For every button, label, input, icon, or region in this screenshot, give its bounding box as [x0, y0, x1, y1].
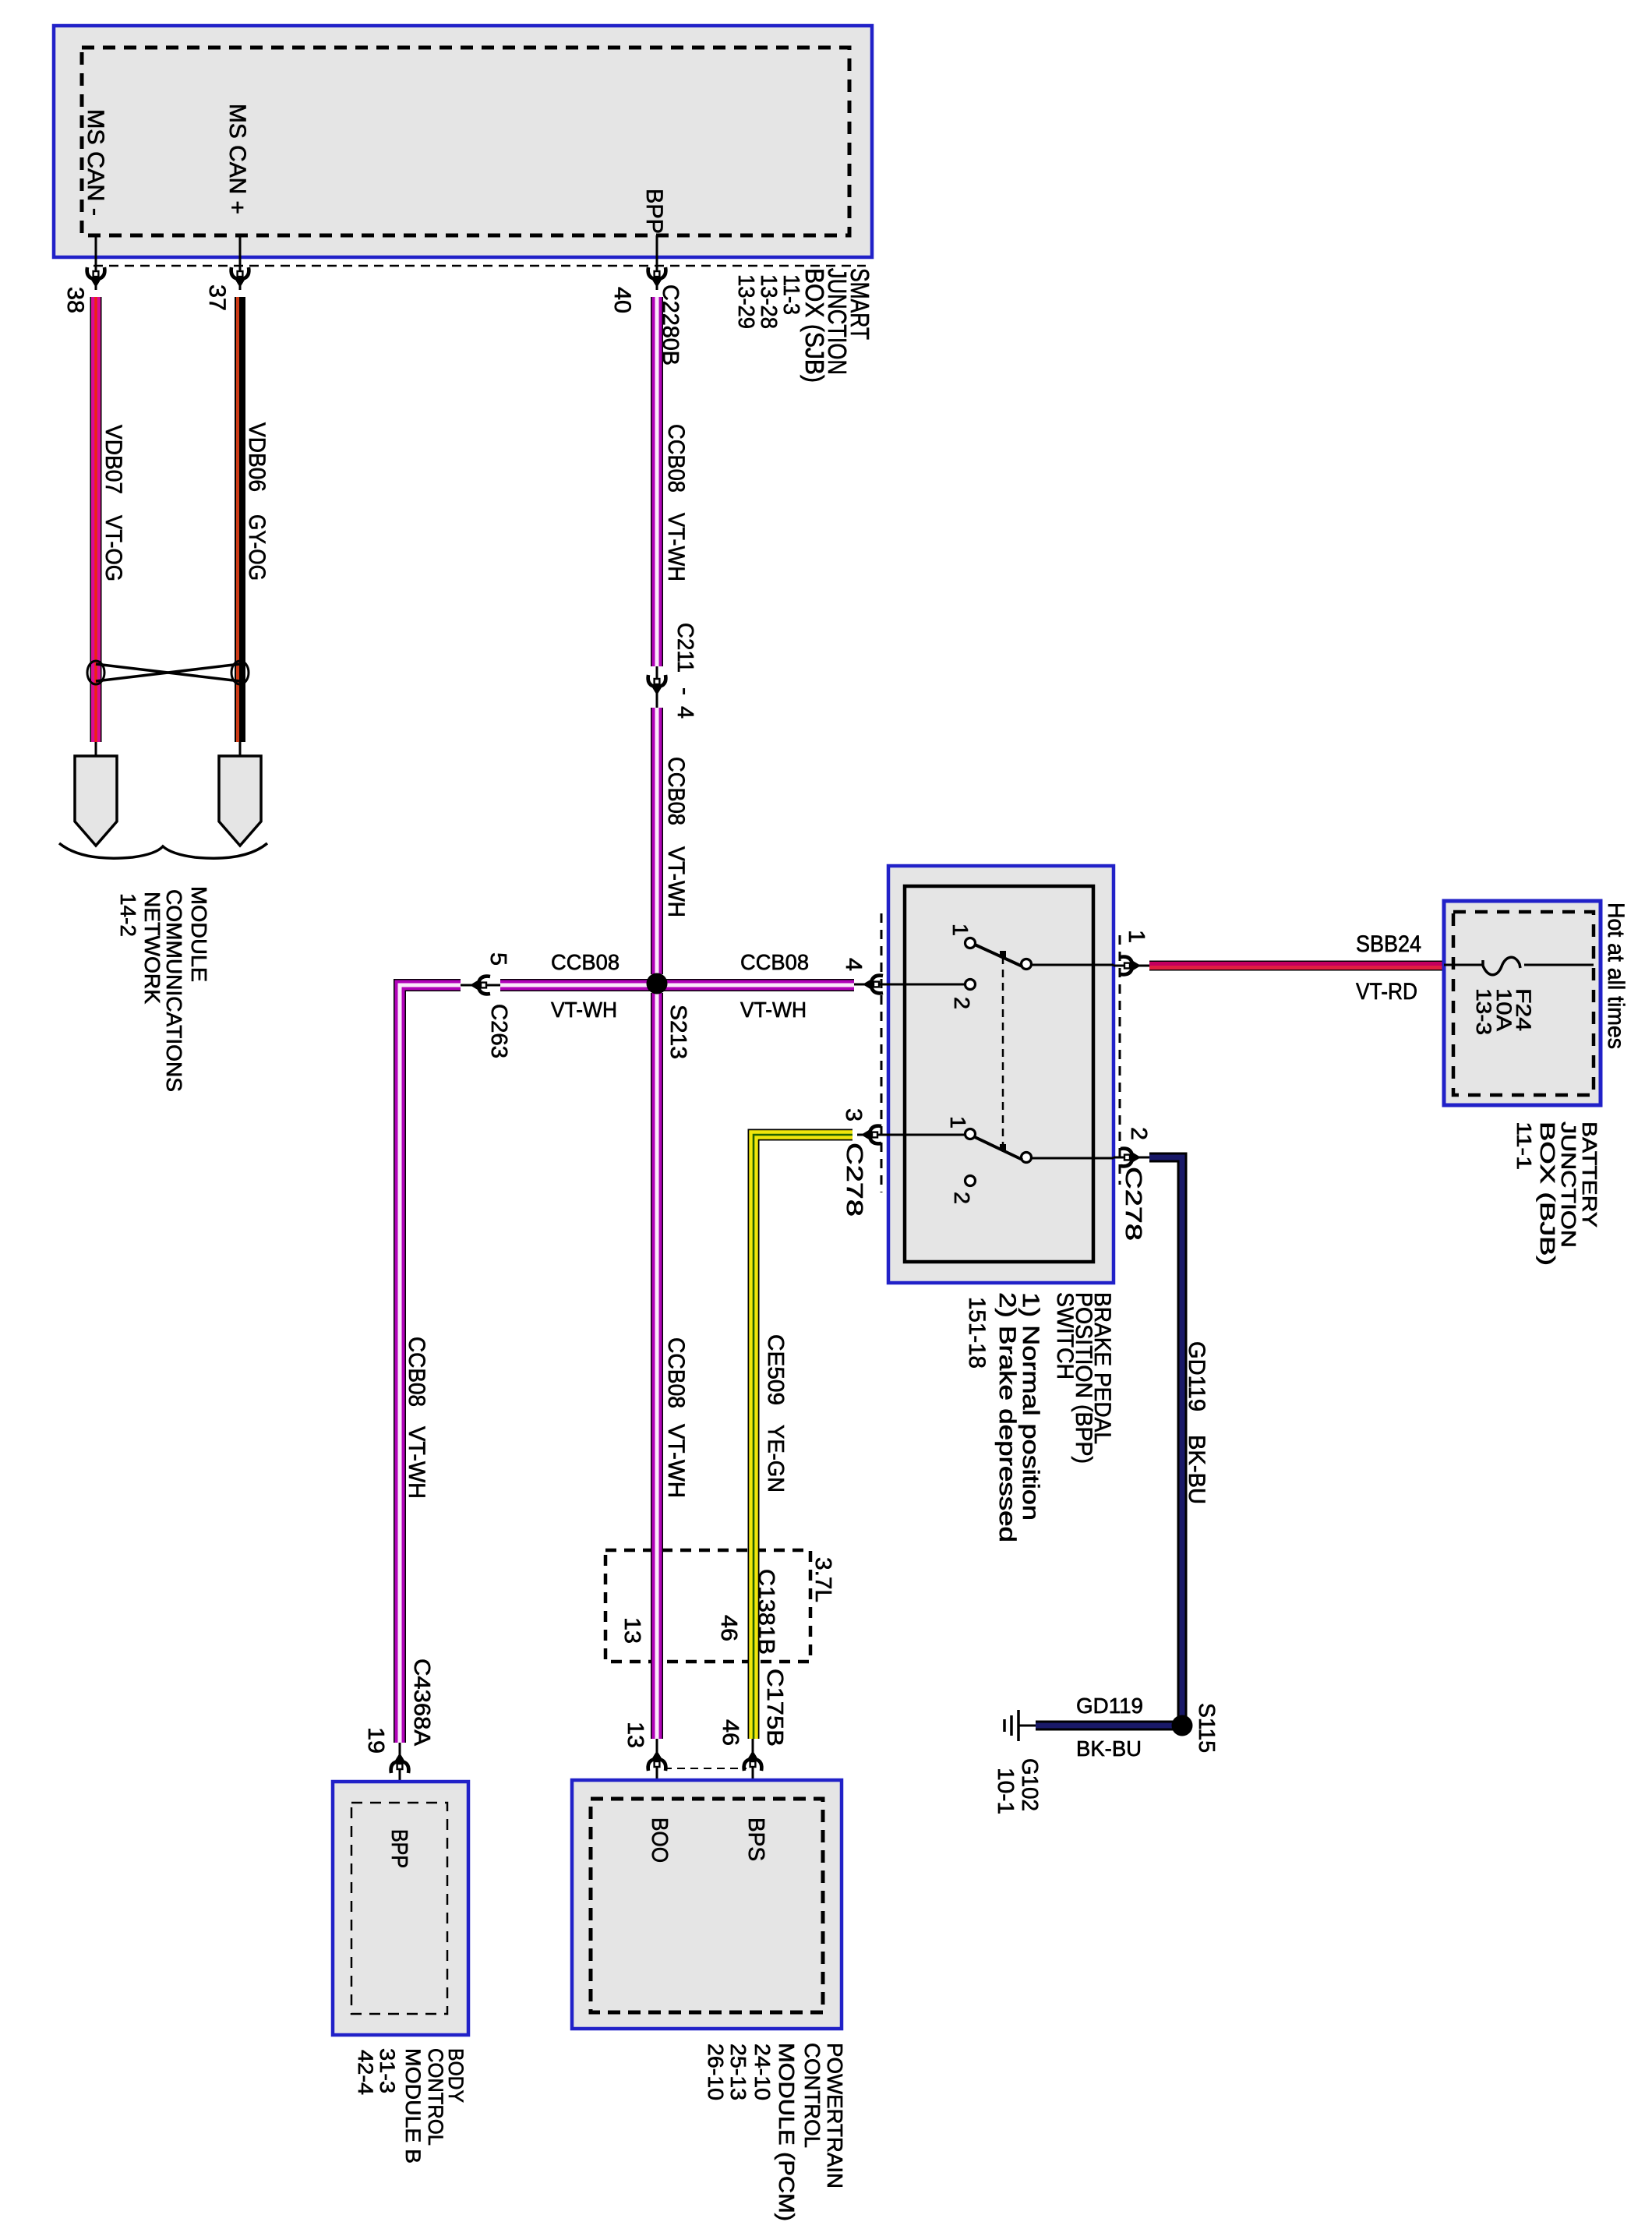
svg-text:BATTERY: BATTERY — [1578, 1122, 1601, 1228]
BCM label — [354, 2048, 468, 2164]
wire label CCB08 VT-WH to BCM — [404, 1337, 429, 1499]
svg-text:G102: G102 — [1017, 1758, 1042, 1811]
svg-text:CCB08: CCB08 — [404, 1337, 429, 1407]
svg-text:CCB08: CCB08 — [663, 424, 689, 493]
switch A contact 1 label — [948, 924, 972, 936]
svg-text:151-18: 151-18 — [964, 1297, 990, 1369]
connector arrow C211 pin 4 — [648, 675, 666, 695]
svg-text:CONTROL: CONTROL — [800, 2043, 824, 2148]
svg-text:10-1: 10-1 — [993, 1768, 1018, 1814]
pin label BPP — [641, 189, 667, 234]
svg-text:VDB07: VDB07 — [101, 425, 126, 494]
svg-text:13-29: 13-29 — [733, 274, 758, 329]
svg-text:46: 46 — [718, 1719, 743, 1746]
svg-text:VT-RD: VT-RD — [1356, 979, 1417, 1005]
wire CCB08 VT-WH from SJB to PCM — [651, 297, 663, 1739]
twisted pair crossing — [87, 661, 249, 684]
wire SBB24 VT-RD — [1149, 961, 1444, 971]
pin 4 lead — [854, 984, 888, 986]
wire label CCB08 VT-WH right of S213 — [740, 950, 809, 1022]
svg-text:25-13: 25-13 — [726, 2044, 750, 2100]
connector arrow C263 pin 5 — [470, 977, 490, 994]
connector name C278 right — [1121, 1167, 1145, 1241]
switch A common lead to pin 1 — [1032, 964, 1114, 966]
battery junction box (BJB) — [1444, 901, 1601, 1105]
switch A pivot — [1022, 959, 1032, 970]
PCM pin label BPS — [743, 1817, 768, 1861]
pin 2 lead — [1114, 1157, 1149, 1159]
network brace — [59, 843, 267, 858]
label MODULE COMMUNICATIONS NETWORK 14-2 — [116, 886, 211, 1092]
connector C211 lead — [656, 666, 658, 708]
connector name C263 — [486, 1004, 511, 1058]
svg-text:1) Normal position: 1) Normal position — [1018, 1292, 1043, 1521]
wire label GD119 BK-BU horizontal — [1076, 1694, 1143, 1761]
wire label VDB07 VT-OG — [101, 425, 126, 581]
switch A blade — [975, 945, 1022, 966]
svg-text:19: 19 — [363, 1727, 388, 1754]
fuse F24 line — [1444, 964, 1594, 966]
pin 46 lead into PCM — [752, 1739, 754, 1797]
PCM pin label BOO — [647, 1817, 672, 1863]
label 3.7L — [810, 1557, 835, 1602]
svg-text:CE509: CE509 — [763, 1334, 788, 1405]
wire CE509 YE-GN — [754, 1135, 852, 1739]
connector arrow BCM pin 19 — [391, 1753, 409, 1773]
switch A contact 1 — [965, 938, 976, 948]
svg-text:CONTROL: CONTROL — [424, 2048, 447, 2146]
BCM pin label BPP — [387, 1829, 411, 1868]
wire CCB08 branch mid bar — [500, 979, 651, 991]
svg-text:C4368A: C4368A — [409, 1659, 434, 1747]
connector name C278 left — [842, 1143, 867, 1217]
svg-text:CCB08: CCB08 — [663, 1337, 689, 1408]
body control module box — [333, 1782, 468, 2035]
switch B contact 1 label — [946, 1116, 970, 1129]
svg-text:NETWORK: NETWORK — [140, 892, 164, 1004]
svg-text:3: 3 — [841, 1108, 866, 1122]
switch A contact 2 label — [950, 997, 974, 1009]
switch A contact2 lead to pin 4 — [888, 984, 965, 986]
svg-text:BK-BU: BK-BU — [1184, 1435, 1209, 1504]
svg-text:VT-WH: VT-WH — [551, 998, 617, 1022]
svg-text:4: 4 — [841, 958, 866, 971]
svg-text:C263: C263 — [486, 1004, 511, 1058]
wire label CCB08 VT-WH — [663, 424, 689, 581]
svg-text:BOO: BOO — [647, 1817, 672, 1863]
wire label CCB08 VT-WH mid — [663, 757, 689, 917]
svg-text:C278: C278 — [842, 1143, 867, 1217]
wire CCB08 branch S213 to pin 4 — [663, 979, 854, 991]
svg-text:VT-WH: VT-WH — [663, 1424, 689, 1498]
svg-text:BOX (BJB): BOX (BJB) — [1536, 1122, 1559, 1266]
SJB label — [733, 268, 874, 383]
svg-text:14-2: 14-2 — [116, 893, 140, 937]
wire label CCB08 VT-WH left of S213 — [551, 950, 619, 1022]
connector C278 dashed line right — [1119, 935, 1121, 1185]
terminator lead MS CAN - — [95, 742, 97, 758]
terminator lead MS CAN + — [239, 742, 242, 758]
wire label CE509 YE-GN — [763, 1334, 788, 1492]
svg-text:24-10: 24-10 — [750, 2044, 775, 2100]
svg-text:MODULE: MODULE — [187, 886, 211, 982]
svg-text:MODULE B: MODULE B — [401, 2048, 425, 2164]
pin number 46 in C1381B — [716, 1615, 741, 1641]
pin number 19 — [363, 1727, 388, 1754]
connector arrow PCM pin 46 — [744, 1750, 762, 1771]
SJB pin 38 lead — [95, 235, 97, 290]
svg-text:VT-WH: VT-WH — [404, 1426, 429, 1499]
pin number 13 in C1381B — [619, 1617, 644, 1644]
svg-text:COMMUNICATIONS: COMMUNICATIONS — [162, 889, 186, 1092]
pin label MS CAN + — [224, 104, 250, 214]
connector C2280B dashed line — [94, 265, 866, 267]
switch B contact 1 — [965, 1129, 976, 1139]
connector name C175B — [762, 1669, 787, 1747]
svg-text:26-10: 26-10 — [704, 2044, 728, 2100]
switch B contact 2 — [965, 1176, 976, 1186]
svg-text:11-1: 11-1 — [1513, 1122, 1536, 1170]
svg-text:BPP: BPP — [387, 1829, 411, 1868]
svg-text:3.7L: 3.7L — [810, 1557, 835, 1602]
engine 3.7L connector dashed box — [605, 1550, 810, 1662]
svg-text:C175B: C175B — [762, 1669, 787, 1747]
connector name C1381B — [754, 1569, 778, 1655]
svg-text:S115: S115 — [1194, 1703, 1219, 1753]
svg-text:37: 37 — [204, 284, 230, 311]
wire label GD119 BK-BU vertical — [1184, 1341, 1209, 1504]
brake pedal position switch box — [888, 866, 1114, 1283]
wire GD119 BK-BU pin2 to ground — [1036, 1157, 1182, 1726]
svg-text:MODULE (PCM): MODULE (PCM) — [775, 2043, 799, 2221]
svg-text:1: 1 — [1124, 930, 1149, 943]
svg-text:GY-OG: GY-OG — [244, 514, 270, 581]
connector arrow pin 4 — [863, 976, 883, 994]
wire VDB07 VT-OG — [90, 297, 102, 742]
connector name C4368A — [409, 1659, 434, 1747]
wire label CCB08 VT-WH below S213 — [663, 1337, 689, 1498]
fuse label F24 10A 13-3 — [1472, 988, 1535, 1035]
wire label SBB24 VT-RD — [1356, 931, 1421, 1005]
svg-text:1: 1 — [946, 1116, 970, 1129]
connector C278 dashed line left — [881, 913, 883, 1192]
svg-text:MS CAN -: MS CAN - — [83, 109, 108, 216]
svg-text:S213: S213 — [665, 1005, 690, 1059]
pin 13 lead into PCM — [656, 1739, 658, 1797]
svg-text:C278: C278 — [1121, 1167, 1145, 1241]
svg-text:VT-WH: VT-WH — [663, 513, 689, 581]
svg-text:VT-WH: VT-WH — [663, 846, 689, 917]
BJB label — [1513, 1122, 1601, 1266]
PCM label — [704, 2043, 847, 2221]
svg-text:CCB08: CCB08 — [740, 950, 809, 974]
powertrain control module box — [572, 1780, 842, 2029]
connector arrow pin 3 — [861, 1126, 881, 1144]
svg-text:1: 1 — [948, 924, 972, 936]
pin number 46 at PCM — [718, 1719, 743, 1746]
pin number 1 — [1124, 930, 1149, 943]
svg-text:JUNCTION: JUNCTION — [1557, 1122, 1580, 1248]
pin number 40 — [609, 287, 635, 313]
ground name G102 10-1 — [993, 1758, 1042, 1814]
svg-text:Hot at all times: Hot at all times — [1603, 903, 1629, 1049]
splice S213 — [647, 973, 668, 994]
SJB pin 40 lead — [656, 235, 658, 290]
connector name C2280B — [658, 284, 683, 366]
terminator MS CAN + — [219, 756, 261, 846]
svg-text:2: 2 — [950, 997, 974, 1009]
svg-text:13: 13 — [623, 1722, 648, 1748]
svg-text:VDB06: VDB06 — [244, 422, 270, 492]
svg-text:CCB08: CCB08 — [551, 950, 619, 974]
connector arrow pin 37 — [231, 267, 249, 288]
svg-text:VT-WH: VT-WH — [740, 998, 807, 1022]
connector C263 lead — [461, 984, 500, 987]
svg-text:BK-BU: BK-BU — [1076, 1736, 1142, 1761]
svg-text:42-4: 42-4 — [354, 2050, 377, 2095]
connector arrow pin 2 — [1121, 1149, 1141, 1167]
pin 3 lead — [857, 1134, 888, 1136]
svg-text:4: 4 — [672, 706, 697, 719]
switch coupling dashed link — [1000, 951, 1006, 1150]
pin number 13 at PCM — [623, 1722, 648, 1748]
pin number 5 — [485, 952, 510, 966]
svg-text:SBB24: SBB24 — [1356, 931, 1421, 957]
connector name C211 - 4 — [672, 623, 697, 719]
svg-text:2: 2 — [1126, 1127, 1151, 1140]
wire VDB06 GY-OG — [238, 297, 240, 742]
terminator MS CAN - — [75, 756, 117, 846]
pin 19 lead into BCM — [399, 1743, 401, 1803]
splice name S115 — [1194, 1703, 1219, 1753]
svg-text:GD119: GD119 — [1184, 1341, 1209, 1411]
svg-text:31-3: 31-3 — [376, 2048, 399, 2093]
splice S115 — [1172, 1715, 1193, 1736]
pin number 3 — [841, 1108, 866, 1122]
connector arrow pin 38 — [87, 267, 105, 288]
connector arrow PCM pin 13 — [648, 1750, 666, 1771]
svg-text:BPS: BPS — [743, 1817, 768, 1861]
smart junction box (SJB) — [54, 26, 872, 257]
svg-text:13-28: 13-28 — [756, 274, 781, 329]
svg-text:46: 46 — [716, 1615, 741, 1641]
switch B contact1 lead to pin 3 — [888, 1134, 965, 1136]
switch B common lead to pin 2 — [1032, 1157, 1114, 1160]
connector arrow pin 40 — [648, 267, 666, 288]
svg-text:GD119: GD119 — [1076, 1694, 1143, 1718]
BPP switch label — [964, 1292, 1115, 1542]
svg-text:C211: C211 — [672, 623, 697, 673]
svg-text:11-3: 11-3 — [778, 274, 803, 315]
svg-text:13: 13 — [619, 1617, 644, 1644]
svg-text:YE-GN: YE-GN — [763, 1425, 788, 1492]
switch B pivot — [1022, 1153, 1032, 1163]
connector C175B dashed line — [664, 1768, 747, 1769]
switch B contact 2 label — [950, 1192, 974, 1204]
svg-text:2: 2 — [950, 1192, 974, 1204]
pin number 37 — [204, 284, 230, 311]
svg-text:VT-OG: VT-OG — [101, 515, 126, 581]
splice name S213 — [665, 1005, 690, 1059]
pin number 38 — [62, 287, 88, 313]
fuse F24 element — [1483, 957, 1520, 974]
label Hot at all times — [1603, 903, 1629, 1049]
pin number 2 — [1126, 1127, 1151, 1140]
svg-text:BOX (SJB): BOX (SJB) — [800, 268, 829, 383]
pin label MS CAN - — [83, 109, 108, 216]
svg-text:BPP: BPP — [641, 189, 667, 234]
connector arrow pin 1 — [1121, 957, 1141, 975]
switch B blade — [975, 1137, 1022, 1160]
svg-text:5: 5 — [485, 952, 510, 966]
svg-text:-: - — [672, 687, 697, 695]
svg-text:SWITCH: SWITCH — [1052, 1292, 1078, 1379]
svg-text:MS CAN +: MS CAN + — [224, 104, 250, 214]
ground G102 symbol — [1004, 1710, 1036, 1741]
pin number 4 — [841, 958, 866, 971]
svg-text:40: 40 — [609, 287, 635, 313]
svg-text:POWERTRAIN: POWERTRAIN — [823, 2043, 847, 2188]
svg-text:13-3: 13-3 — [1472, 988, 1495, 1035]
svg-text:CCB08: CCB08 — [663, 757, 689, 825]
switch A contact 2 — [965, 980, 976, 990]
pin 1 lead — [1114, 965, 1149, 967]
svg-text:2) Brake depressed: 2) Brake depressed — [994, 1292, 1020, 1542]
svg-text:38: 38 — [62, 287, 88, 313]
SJB pin 37 lead — [239, 235, 242, 290]
wire label VDB06 GY-OG — [244, 422, 270, 581]
wire CCB08 branch to BCM with bend — [400, 985, 461, 1743]
